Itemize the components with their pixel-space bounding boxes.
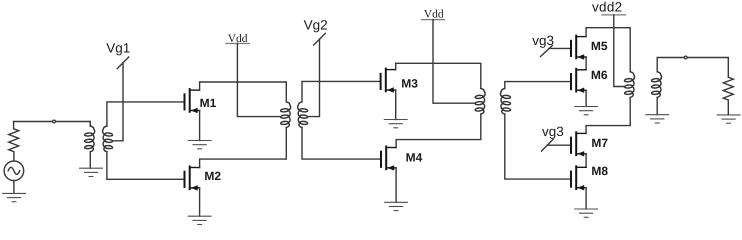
ground (under M3) — [384, 120, 407, 128]
wire (T1 primary bottom to ground) — [89, 152, 91, 169]
wire (T2 secondary center tap to Vg2) — [308, 39, 320, 116]
wire (T1 center tap stub to Vg1) — [113, 63, 123, 141]
wire (Vdd to T3 tap) — [433, 20, 475, 104]
transformer T1 primary winding — [84, 126, 94, 152]
pin Vg1 (slash tick) — [117, 57, 129, 69]
ground (under source) — [3, 193, 26, 201]
transistor M2 — [185, 167, 200, 191]
svg-text:M5: M5 — [591, 39, 608, 53]
wire (T1 secondary bottom to M2 gate) — [107, 152, 185, 180]
wire (M5 source to M6 drain) — [585, 57, 587, 70]
transistor M1 — [185, 89, 200, 113]
svg-text:vg3: vg3 — [532, 33, 554, 48]
transformer T3 secondary winding — [500, 88, 510, 114]
wire (T3 secondary bottom to M8 gate) — [505, 114, 571, 179]
transistor M6 — [571, 69, 586, 93]
transformer T3 primary winding — [475, 88, 485, 114]
svg-text:M4: M4 — [406, 151, 423, 165]
wire (M1 source to ground) — [199, 111, 201, 141]
wire (M6 source to ground) — [585, 90, 587, 106]
wire (M7 source to M8 drain) — [585, 154, 587, 168]
wire (source top to input node) — [14, 122, 91, 129]
pin vg3 upper (slash tick and wire to M5 gate) — [541, 46, 553, 57]
wire (T2 secondary bottom to M4 gate) — [302, 128, 381, 160]
wire (M3 source to ground) — [395, 90, 397, 120]
node OUT (output port circle) — [684, 56, 687, 59]
svg-text:Vg1: Vg1 — [106, 40, 130, 55]
transistor M8 — [571, 166, 586, 190]
wire (M4 drain to T3 primary bottom) — [396, 114, 481, 147]
svg-text:Vdd: Vdd — [424, 9, 444, 21]
ground (under M6) — [575, 107, 598, 115]
resistor RL (load resistor) — [723, 77, 733, 100]
ground (under M8) — [575, 209, 598, 217]
ground (under load) — [717, 115, 740, 123]
wire (T3 secondary top to M6 gate) — [505, 82, 571, 89]
ground (under M1) — [188, 141, 211, 149]
svg-text:vdd2: vdd2 — [592, 0, 622, 14]
ground (under T1 primary) — [80, 168, 103, 176]
ground (under M4) — [385, 202, 408, 210]
ground (under T4 secondary) — [646, 115, 669, 123]
wire (T1 secondary top to M1 gate) — [107, 102, 185, 126]
wire (load resistor to ground) — [727, 100, 729, 115]
transistor M3 — [381, 69, 396, 93]
wire (M4 source to ground) — [395, 168, 397, 202]
wire (M8 source to ground) — [585, 188, 587, 209]
wire (T4 secondary top to output node and load) — [657, 58, 684, 72]
pin vg3 lower (slash tick and wire to M7 gate) — [542, 139, 554, 151]
svg-text:Vg2: Vg2 — [304, 17, 328, 32]
svg-text:M8: M8 — [591, 164, 608, 178]
svg-text:M3: M3 — [401, 76, 418, 90]
wire (T2 secondary top to M3 gate) — [302, 81, 381, 101]
svg-text:M6: M6 — [591, 68, 608, 82]
wire (Vdd to T2 tap) — [237, 44, 280, 117]
wire (M1 drain to T2 primary top) — [200, 82, 287, 102]
svg-text:M2: M2 — [204, 169, 221, 183]
wire (M2 source to ground) — [199, 188, 201, 216]
wire (M2 drain to T2 primary bottom) — [200, 128, 287, 168]
svg-text:M7: M7 — [591, 136, 608, 150]
wire (vdd2 to T4 tap) — [614, 15, 625, 87]
wire (T4 secondary bottom to ground) — [656, 97, 658, 114]
transistor M5 — [571, 36, 586, 60]
transformer T2 primary winding — [280, 102, 290, 128]
transformer T2 secondary winding — [298, 102, 308, 128]
transformer T1 secondary winding — [103, 126, 113, 152]
node IN (input port circle) — [53, 120, 56, 123]
svg-text:vg3: vg3 — [542, 124, 564, 139]
transformer T4 secondary winding — [651, 72, 661, 98]
voltage source VS (AC sine source) — [4, 152, 24, 194]
wire (M5 drain to T4 primary top) — [586, 28, 630, 72]
transformer T4 primary winding — [624, 72, 634, 98]
resistor RS (source resistor) — [9, 129, 19, 152]
wire (M7 drain to T4 primary bottom) — [586, 97, 630, 133]
pin Vg2 (slash tick) — [314, 33, 326, 45]
svg-text:M1: M1 — [200, 96, 217, 110]
transistor M7 — [571, 132, 586, 156]
ground (under M2) — [188, 216, 211, 224]
transistor M4 — [381, 147, 396, 171]
wire (M3 drain to T3 primary top) — [396, 63, 481, 88]
